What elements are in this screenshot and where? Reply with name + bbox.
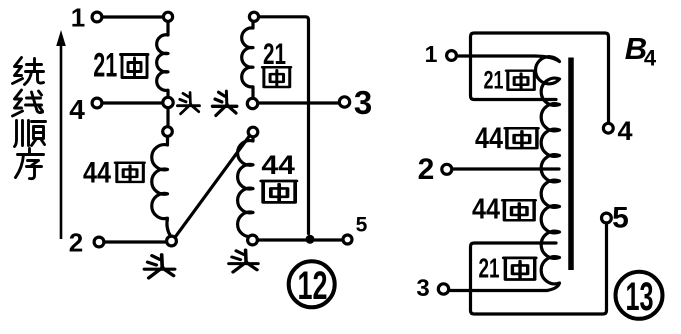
label 匝 (right top 21T) <box>506 71 535 90</box>
node A2 (start of 44T winding A) <box>163 127 173 137</box>
node A bottom <box>167 236 177 246</box>
label 头 (start mark 3) <box>144 255 174 278</box>
wire tap 44T/21T to terminal 5 (around bottom) <box>471 224 607 315</box>
label 匝 (right 44T upper) <box>505 128 538 148</box>
svg-text:44: 44 <box>475 122 503 155</box>
svg-text:21: 21 <box>484 67 504 95</box>
node B2 (start of 44T winding B) <box>248 127 258 137</box>
terminal 3 (right diagram) <box>438 284 448 294</box>
coil 21T winding B <box>242 22 253 98</box>
coil 21T winding A <box>157 23 168 98</box>
label 匝 (winding A2 44T) <box>115 163 144 182</box>
wire node B tap to terminal 3 <box>258 101 339 104</box>
node B tap <box>247 98 257 108</box>
svg-text:4: 4 <box>617 116 632 146</box>
svg-text:1: 1 <box>425 41 438 67</box>
label 绕 (winding-order text char 1) <box>13 58 44 85</box>
node B top <box>249 12 258 21</box>
wire node A to winding A2 start <box>166 108 169 127</box>
wire terminal 1 to coil top and coil (right diagram winding) <box>450 56 560 291</box>
label 头 (start mark 2) <box>212 91 237 115</box>
wire terminal 1 to winding A top <box>103 15 164 18</box>
svg-text:3: 3 <box>354 84 372 121</box>
node B bottom <box>248 235 258 245</box>
label 头 (start mark 1) <box>177 93 199 114</box>
terminal 5 (right diagram) <box>602 213 612 223</box>
svg-text:5: 5 <box>612 202 629 235</box>
label 匝 (winding B 21T) <box>262 67 290 87</box>
svg-text:12: 12 <box>298 264 328 308</box>
svg-text:2: 2 <box>69 228 83 258</box>
terminal 4 (left) <box>92 98 102 108</box>
coil 44T winding B <box>238 137 253 237</box>
svg-text:44: 44 <box>261 150 295 180</box>
svg-text:1: 1 <box>71 3 85 33</box>
label 匝 (winding A 21T) <box>121 55 149 78</box>
terminal 1 (left) <box>92 12 102 22</box>
label 匝 (winding B2 44T) <box>261 181 296 202</box>
figure number 13 circle <box>616 272 663 319</box>
terminal 1 (right diagram) <box>447 51 457 61</box>
label 匝 (right bottom 21T) <box>504 258 536 280</box>
wire terminal 2 to coil centre tap <box>453 167 560 170</box>
node A top <box>163 12 172 21</box>
terminal 5 (left) <box>343 235 352 244</box>
svg-text:13: 13 <box>626 275 654 319</box>
svg-text:4: 4 <box>69 94 85 125</box>
svg-text:21: 21 <box>93 47 117 85</box>
terminal 2 (left) <box>94 237 104 247</box>
svg-text:3: 3 <box>416 275 429 302</box>
junction right rail to bottom wire <box>306 235 315 244</box>
label 匝 (right 44T lower) <box>503 200 536 220</box>
svg-text:5: 5 <box>356 214 368 237</box>
svg-text:44: 44 <box>472 194 500 226</box>
svg-text:21: 21 <box>479 253 500 284</box>
transformer designator B4 <box>625 31 657 71</box>
label 顺 (winding-order text char 3) <box>15 121 46 147</box>
label 线 (winding-order text char 2) <box>13 90 43 116</box>
coil 44T winding A <box>152 137 171 236</box>
terminal 4 (right diagram) <box>603 123 613 133</box>
wire terminal 2 to node A bottom <box>105 240 167 243</box>
terminal 2 (right diagram) <box>442 164 452 174</box>
transformer core <box>568 58 574 271</box>
wire terminal 4 to node A <box>103 101 163 104</box>
node A tap (junction of 21T and 44T) <box>163 97 173 107</box>
wire winding B top to right rail <box>259 17 309 234</box>
label 序 (winding-order text char 4) <box>16 149 44 179</box>
wire winding B bottom to terminal 5 <box>258 238 343 241</box>
arrow (winding order direction) <box>56 30 66 239</box>
svg-text:4: 4 <box>644 46 657 71</box>
figure number 12 circle <box>289 261 335 308</box>
svg-text:2: 2 <box>418 153 435 186</box>
wire tap 21T/44T to terminal 4 (around top) <box>471 33 609 123</box>
label 头 (start mark 4) <box>229 250 258 272</box>
terminal 3 (left) <box>339 97 349 107</box>
svg-text:44: 44 <box>83 156 111 189</box>
wire diagonal link (node A bottom to winding B2 start) <box>175 136 250 238</box>
